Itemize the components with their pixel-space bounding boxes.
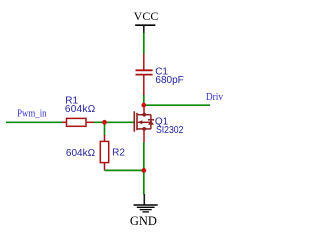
gate bar: [133, 111, 135, 131]
capacitor C1: [136, 54, 153, 96]
resistor R1: [62, 118, 95, 126]
wire source to gnd node: [143, 142, 145, 169]
middle stub: [138, 121, 151, 123]
wire R1 to gate: [94, 121, 134, 123]
bottom stub: [137, 128, 151, 130]
drain pin: [143, 105, 145, 115]
wire VCC to C1: [143, 33, 145, 54]
source stub dot: [142, 127, 146, 131]
transistor Q1 mosfet: [134, 105, 154, 143]
wire node to Driv: [144, 104, 210, 106]
power port VCC: [134, 9, 159, 33]
svg-text:604kΩ: 604kΩ: [65, 104, 96, 115]
bulk arrow: [138, 120, 143, 124]
svg-text:Driv: Driv: [206, 92, 224, 103]
svg-text:680pF: 680pF: [155, 75, 183, 86]
wire Pwm_in to R1: [6, 121, 63, 123]
svg-text:R2: R2: [112, 148, 125, 159]
resistor R2: [100, 135, 108, 170]
svg-text:604kΩ: 604kΩ: [66, 148, 96, 159]
channel bar: [136, 113, 138, 130]
ground GND: [130, 194, 158, 228]
source pin: [143, 129, 145, 143]
drain stub dot: [142, 113, 146, 117]
wire node to GND: [143, 170, 145, 194]
body diode branch: [150, 115, 152, 129]
svg-text:GND: GND: [130, 214, 157, 228]
wire R2 to source node: [105, 169, 144, 171]
wire C1 to node: [143, 95, 145, 105]
wire gate node to R2: [104, 122, 106, 135]
top stub: [137, 114, 151, 116]
body diode cathode bar: [148, 119, 154, 121]
body diode triangle: [148, 120, 154, 124]
junction node gate: [102, 120, 107, 125]
svg-text:SI2302: SI2302: [156, 125, 184, 136]
svg-text:VCC: VCC: [134, 9, 159, 23]
svg-text:Pwm_in: Pwm_in: [17, 109, 46, 120]
junction node source: [141, 168, 146, 173]
junction node drain: [141, 103, 146, 108]
